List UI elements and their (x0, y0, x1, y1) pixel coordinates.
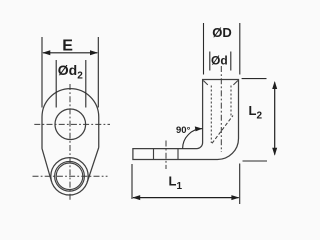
L1 dimension line (133, 197, 239, 199)
L2 dimension line (274, 83, 276, 155)
barrel bore circle (56, 163, 83, 190)
tube centerline (220, 66, 222, 152)
centerline horizontal barrel (33, 175, 108, 177)
svg-text:E: E (62, 38, 73, 55)
hole hidden ticks on tongue (154, 149, 179, 160)
dimension Od extension lines (210, 52, 231, 71)
svg-text:ØD: ØD (212, 25, 232, 40)
L1 right extension line (239, 164, 241, 205)
centerline vertical left view (69, 84, 71, 200)
90 degree arrowhead (195, 126, 203, 131)
hidden bore line right (230, 86, 232, 116)
90 degree arc (183, 129, 203, 149)
right view: bent lug outline (133, 80, 239, 160)
svg-text:90°: 90° (176, 125, 191, 136)
barrel inner circle (55, 161, 85, 191)
L2 top extension line (242, 78, 267, 80)
chamfer right (233, 81, 238, 85)
hidden bore line left (210, 86, 212, 144)
dimension Od2 extension lines (56, 60, 86, 108)
L2 bottom extension line (243, 160, 268, 162)
stud hole circle Od2 (55, 109, 86, 140)
barrel outer circle (51, 158, 88, 195)
chamfer left (203, 81, 208, 85)
centerline horizontal hole (34, 123, 110, 125)
svg-text:L1: L1 (169, 174, 183, 193)
dimension E line with arrows (43, 52, 97, 54)
hole axis centerline (165, 141, 167, 170)
svg-text:Ød2: Ød2 (58, 62, 83, 82)
dimension E extension lines (42, 37, 98, 108)
dimension OD extension lines (204, 23, 240, 75)
svg-text:L2: L2 (249, 103, 263, 122)
L1 left extension line (131, 164, 133, 199)
hidden bore bottom diagonal (212, 116, 233, 144)
left view: palm outline with top arc and taper (42, 89, 99, 183)
svg-text:Ød: Ød (211, 54, 228, 68)
